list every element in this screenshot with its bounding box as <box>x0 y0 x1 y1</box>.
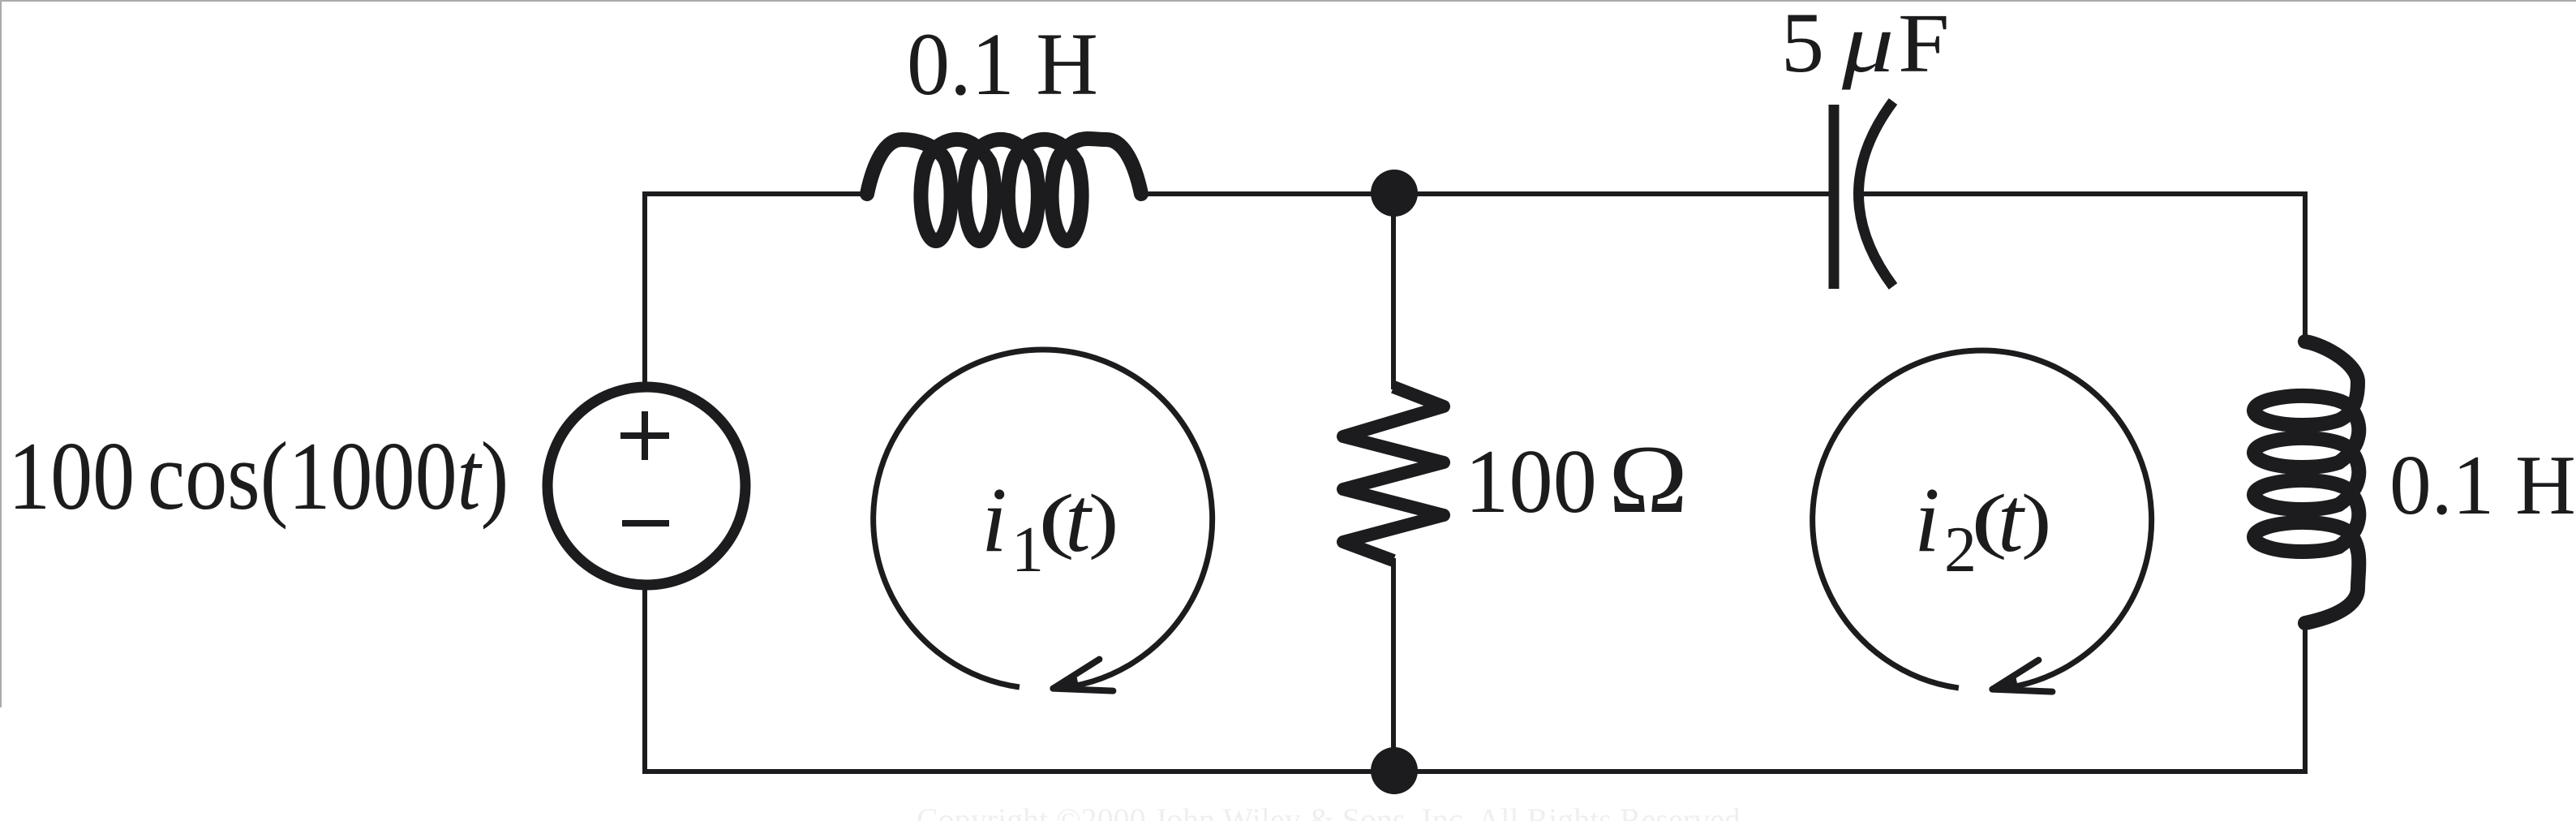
svg-text:0.1 H: 0.1 H <box>907 15 1098 114</box>
svg-text:i: i <box>981 468 1007 571</box>
mesh current i2 arrowhead <box>1992 660 2038 690</box>
svg-text:Copyright ©2000 John Wiley & S: Copyright ©2000 John Wiley & Sons, Inc. … <box>917 802 1749 821</box>
svg-text:): ) <box>1088 479 1118 561</box>
voltage source VS1 circle <box>547 387 745 585</box>
wire from L1 right to capacitor left plate through node A <box>1142 191 1834 196</box>
mesh current i1 arrowhead <box>1053 660 1099 689</box>
svg-text:i: i <box>1914 468 1940 571</box>
mesh current loop i1 arc <box>874 350 1213 689</box>
svg-text:5: 5 <box>1781 0 1824 90</box>
svg-text:): ) <box>2021 479 2051 561</box>
frame left edge <box>0 0 2 707</box>
label C1 F <box>1898 0 1950 90</box>
inductor L2 (right, 0.1 H) <box>2254 342 2359 623</box>
label L1 value 0.1 H <box>907 15 1098 114</box>
label R1 value 100 ohm <box>1465 432 1597 532</box>
capacitor C1 right curved plate <box>1859 101 1894 286</box>
inductor L1 (top, 0.1 H) <box>867 139 1141 241</box>
wire from source bottom, bottom rail, up right side to L2 bottom <box>645 585 2305 772</box>
svg-text:F: F <box>1898 0 1950 90</box>
resistor R1 zigzag <box>1343 387 1444 561</box>
mesh current loop i2 arc <box>1813 350 2152 690</box>
svg-text:Ω: Ω <box>1608 426 1688 533</box>
capacitor C1 left plate <box>1829 105 1840 289</box>
svg-text:μ: μ <box>1841 0 1894 90</box>
VS1 minus sign <box>622 520 669 527</box>
label C1 mu <box>1841 0 1894 90</box>
node B junction dot <box>1371 747 1418 794</box>
label R1 ohm symbol <box>1608 426 1688 533</box>
wire node A down to resistor top <box>1391 194 1396 389</box>
node A junction dot <box>1371 170 1418 217</box>
svg-text:100: 100 <box>1465 432 1597 532</box>
label source value 100 cos(1000t) <box>8 423 509 530</box>
wire from L1 left to top-left corner and down to source top <box>645 194 867 387</box>
frame top edge <box>0 0 2576 2</box>
VS1 plus sign <box>620 411 669 460</box>
wire from L2 top up and left to capacitor right plate <box>1863 194 2305 342</box>
label L2 value 0.1 H <box>2389 437 2576 532</box>
wire resistor bottom down to node B <box>1391 558 1396 772</box>
svg-text:0.1 H: 0.1 H <box>2389 437 2576 532</box>
svg-text:100 cos(1000t): 100 cos(1000t) <box>8 423 509 530</box>
